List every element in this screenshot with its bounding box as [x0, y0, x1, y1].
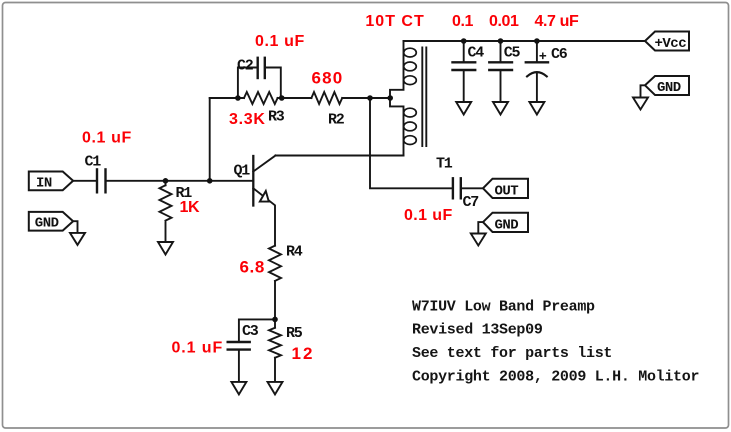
svg-text:C7: C7 [463, 194, 479, 211]
svg-text:0.1: 0.1 [452, 13, 474, 30]
svg-text:T1: T1 [436, 156, 453, 173]
svg-text:R5: R5 [286, 325, 303, 342]
svg-text:10T CT: 10T CT [365, 13, 424, 30]
svg-text:GND: GND [495, 217, 519, 233]
svg-text:6.8: 6.8 [240, 257, 265, 276]
svg-text:R4: R4 [286, 243, 303, 260]
svg-text:3.3K: 3.3K [229, 111, 266, 128]
svg-text:C6: C6 [551, 46, 568, 63]
svg-text:Revised 13Sep09: Revised 13Sep09 [412, 322, 543, 339]
svg-text:C3: C3 [242, 323, 259, 340]
svg-text:1K: 1K [180, 199, 200, 216]
svg-text:0.1 uF: 0.1 uF [404, 207, 453, 224]
svg-text:680: 680 [312, 69, 344, 88]
svg-text:0.1 uF: 0.1 uF [82, 130, 132, 147]
svg-text:C1: C1 [85, 153, 102, 170]
svg-text:0.1 uF: 0.1 uF [172, 340, 224, 357]
svg-text:W7IUV Low Band Preamp: W7IUV Low Band Preamp [412, 298, 595, 315]
svg-text:R3: R3 [268, 109, 285, 126]
svg-text:+Vcc: +Vcc [655, 36, 687, 52]
svg-text:R2: R2 [328, 112, 345, 129]
svg-text:4.7 uF: 4.7 uF [535, 13, 579, 30]
svg-text:0.1 uF: 0.1 uF [255, 33, 305, 50]
svg-text:C4: C4 [468, 44, 485, 61]
svg-text:Q1: Q1 [234, 163, 251, 180]
svg-text:0.01: 0.01 [489, 13, 519, 30]
svg-text:IN: IN [36, 175, 52, 191]
svg-text:GND: GND [35, 216, 59, 232]
svg-text:See text for parts list: See text for parts list [412, 345, 612, 362]
svg-text:C2: C2 [237, 58, 254, 75]
svg-text:C5: C5 [504, 44, 521, 61]
svg-text:OUT: OUT [495, 184, 519, 200]
svg-text:Copyright 2008, 2009 L.H. Moli: Copyright 2008, 2009 L.H. Molitor [412, 368, 699, 385]
svg-text:GND: GND [657, 80, 681, 96]
svg-text:12: 12 [292, 344, 315, 363]
